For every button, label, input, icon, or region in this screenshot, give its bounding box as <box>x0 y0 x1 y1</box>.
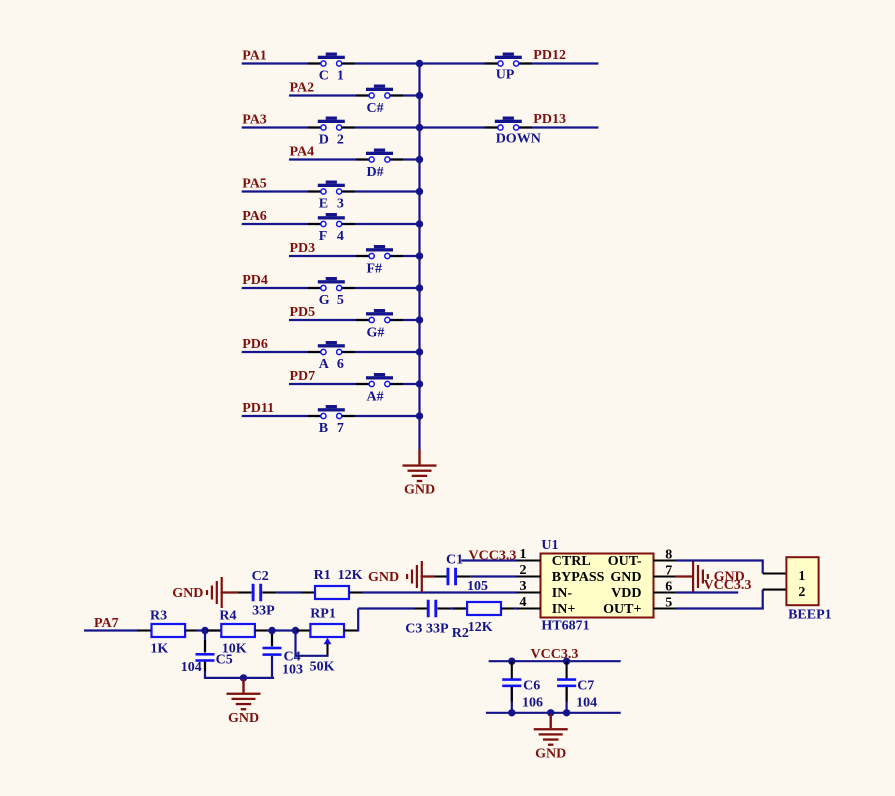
svg-text:E: E <box>319 197 328 212</box>
svg-text:104: 104 <box>576 696 597 711</box>
svg-text:1: 1 <box>337 69 344 84</box>
svg-text:PD11: PD11 <box>242 401 274 416</box>
svg-text:HT6871: HT6871 <box>541 619 589 634</box>
svg-text:50K: 50K <box>310 659 335 674</box>
svg-text:PA3: PA3 <box>242 113 267 128</box>
svg-text:GND: GND <box>172 586 203 601</box>
svg-text:R3: R3 <box>150 609 167 624</box>
svg-text:C2: C2 <box>252 569 269 584</box>
svg-text:GND: GND <box>535 746 566 761</box>
svg-text:8: 8 <box>665 547 672 562</box>
svg-text:PA5: PA5 <box>242 177 267 192</box>
svg-text:R1: R1 <box>314 568 331 583</box>
svg-text:VCC3.3: VCC3.3 <box>704 578 752 593</box>
svg-text:IN-: IN- <box>552 586 573 601</box>
svg-text:GND: GND <box>404 483 435 498</box>
svg-text:D: D <box>319 133 329 148</box>
svg-text:C3: C3 <box>405 622 422 637</box>
svg-text:C#: C# <box>367 101 384 116</box>
svg-text:R2: R2 <box>452 626 469 641</box>
svg-text:U1: U1 <box>541 538 558 553</box>
svg-text:106: 106 <box>522 696 543 711</box>
svg-text:A: A <box>319 357 330 372</box>
svg-text:PA4: PA4 <box>290 145 315 160</box>
svg-text:G#: G# <box>367 325 385 340</box>
svg-text:PD4: PD4 <box>242 273 268 288</box>
svg-text:3: 3 <box>337 197 344 212</box>
svg-text:F: F <box>319 229 328 244</box>
svg-text:33P: 33P <box>252 604 275 619</box>
svg-text:1K: 1K <box>150 641 168 656</box>
svg-text:RP1: RP1 <box>310 607 336 622</box>
svg-text:OUT+: OUT+ <box>603 602 641 617</box>
svg-text:6: 6 <box>665 579 672 594</box>
svg-text:C1: C1 <box>446 553 463 568</box>
svg-text:C: C <box>319 69 329 84</box>
svg-text:C7: C7 <box>577 679 594 694</box>
svg-text:BYPASS: BYPASS <box>552 570 605 585</box>
svg-text:2: 2 <box>520 563 527 578</box>
svg-text:PA6: PA6 <box>242 209 267 224</box>
svg-text:5: 5 <box>337 293 344 308</box>
svg-text:VCC3.3: VCC3.3 <box>531 647 579 662</box>
svg-text:5: 5 <box>665 595 672 610</box>
svg-text:PD7: PD7 <box>290 369 316 384</box>
svg-text:PD6: PD6 <box>242 337 268 352</box>
svg-text:C5: C5 <box>216 653 233 668</box>
svg-text:2: 2 <box>337 133 344 148</box>
svg-text:PD5: PD5 <box>290 305 316 320</box>
svg-text:OUT-: OUT- <box>608 554 642 569</box>
svg-text:4: 4 <box>520 595 527 610</box>
svg-text:GND: GND <box>368 570 399 585</box>
svg-text:R4: R4 <box>219 609 236 624</box>
svg-text:1: 1 <box>520 547 527 562</box>
svg-text:DOWN: DOWN <box>496 132 541 147</box>
svg-text:G: G <box>319 293 330 308</box>
svg-text:GND: GND <box>610 570 641 585</box>
svg-text:D#: D# <box>367 165 384 180</box>
svg-text:PA7: PA7 <box>94 616 119 631</box>
svg-text:12K: 12K <box>338 568 363 583</box>
svg-text:VCC3.3: VCC3.3 <box>469 548 517 563</box>
svg-text:4: 4 <box>337 229 344 244</box>
svg-text:PA1: PA1 <box>242 49 267 64</box>
svg-text:104: 104 <box>181 660 202 675</box>
svg-text:6: 6 <box>337 357 344 372</box>
svg-text:UP: UP <box>496 68 515 83</box>
svg-text:A#: A# <box>367 389 384 404</box>
svg-text:PD12: PD12 <box>533 48 566 63</box>
svg-text:BEEP1: BEEP1 <box>788 607 832 622</box>
svg-text:1: 1 <box>798 569 805 584</box>
svg-text:IN+: IN+ <box>552 602 576 617</box>
svg-text:CTRL: CTRL <box>552 554 591 569</box>
svg-text:PD13: PD13 <box>533 112 566 127</box>
svg-text:VDD: VDD <box>611 586 641 601</box>
svg-text:105: 105 <box>467 579 488 594</box>
svg-text:GND: GND <box>228 711 259 726</box>
svg-text:33P: 33P <box>426 622 449 637</box>
svg-text:7: 7 <box>337 421 344 436</box>
svg-text:C6: C6 <box>523 679 540 694</box>
svg-text:B: B <box>319 421 328 436</box>
svg-text:2: 2 <box>798 585 805 600</box>
svg-text:PA2: PA2 <box>290 81 315 96</box>
svg-text:F#: F# <box>367 261 383 276</box>
svg-text:7: 7 <box>665 563 672 578</box>
svg-text:103: 103 <box>282 663 303 678</box>
svg-text:3: 3 <box>520 579 527 594</box>
svg-text:PD3: PD3 <box>290 241 316 256</box>
svg-text:12K: 12K <box>468 620 493 635</box>
